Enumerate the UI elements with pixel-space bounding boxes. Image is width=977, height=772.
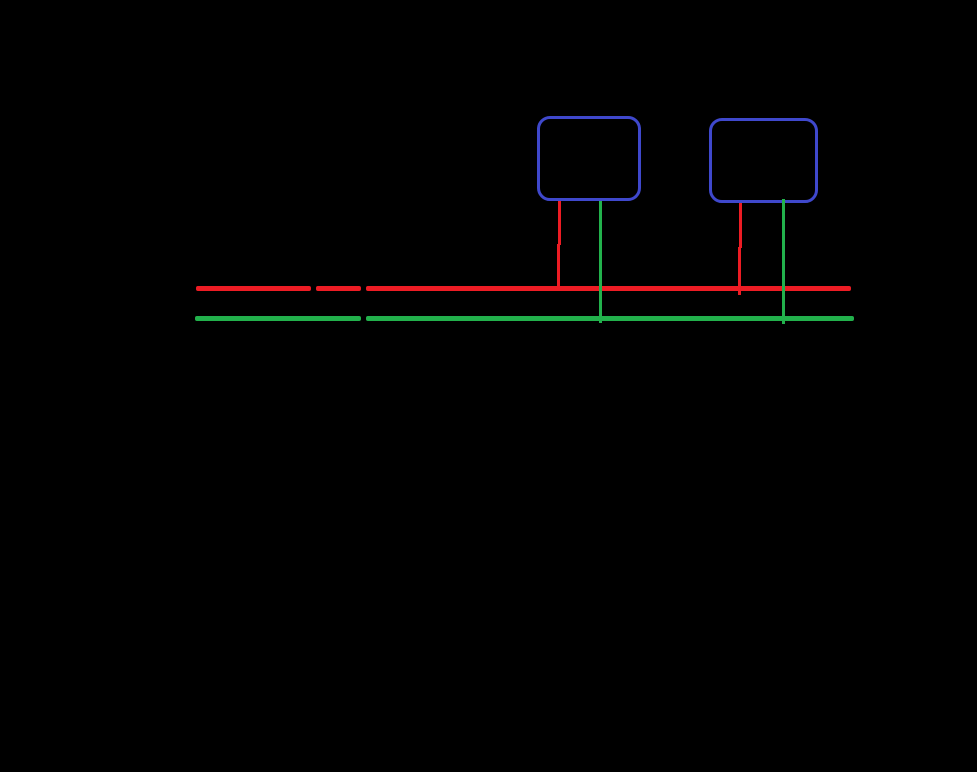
wire: green bus segment 1 (left of district boundary 2): [195, 316, 361, 321]
wire: red bus segment 2 (middle district): [316, 286, 361, 290]
wire: red bus segment 1 (left district): [196, 286, 311, 290]
wire: red feeder from booster U1 (upper segment): [558, 199, 561, 245]
wire: red feeder from booster U1 (lower segment, slight jog): [557, 244, 560, 291]
wire: red bus segment 3 (right district): [366, 286, 851, 290]
booster U1 (left blue box): [537, 116, 641, 201]
wire: green bus segment 2 (right district): [366, 316, 854, 321]
wire: red feeder from booster U2 (upper segment): [739, 201, 742, 248]
wire: red feeder from booster U2 (lower segment, crosses red bus, overshoot): [738, 247, 741, 295]
wire: green feeder from booster U1 (crosses red bus, joins green bus): [599, 199, 602, 323]
wire: green feeder from booster U2 (crosses red bus and U2 border, joins green bus): [782, 199, 786, 324]
booster U2 (right blue box): [709, 118, 818, 203]
